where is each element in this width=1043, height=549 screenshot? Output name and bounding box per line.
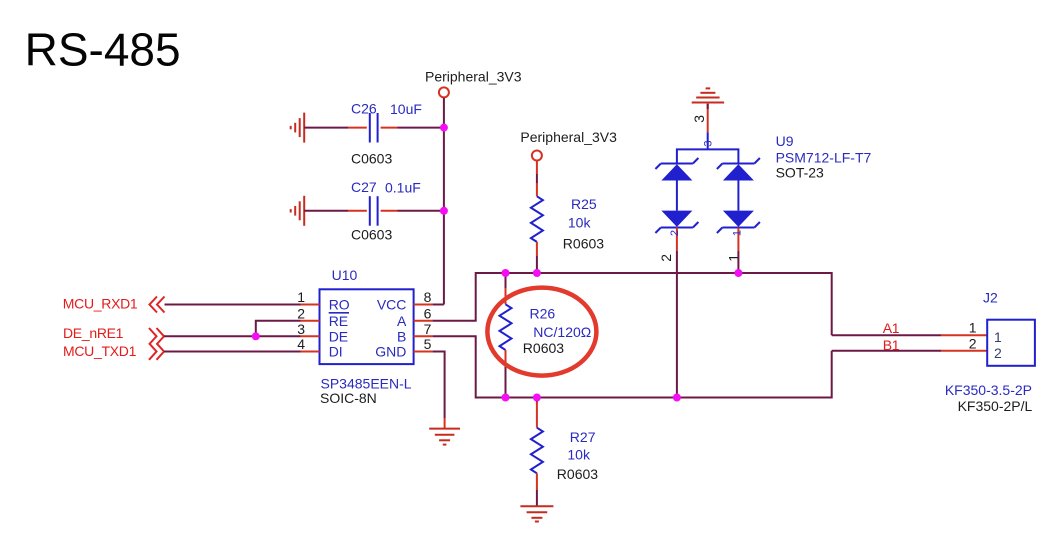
svg-text:10k: 10k bbox=[568, 214, 592, 230]
svg-text:1: 1 bbox=[732, 230, 744, 236]
svg-text:C26: C26 bbox=[351, 101, 377, 117]
pin 4 DI bbox=[297, 336, 342, 360]
svg-text:7: 7 bbox=[424, 321, 432, 337]
svg-text:KF350-2P/L: KF350-2P/L bbox=[958, 398, 1033, 414]
svg-text:DE: DE bbox=[329, 328, 348, 344]
wire U10 GND pin to ground bbox=[433, 352, 445, 419]
svg-text:3: 3 bbox=[691, 115, 707, 123]
power flag Peripheral_3V3 (R25) bbox=[520, 129, 617, 161]
svg-text:A1: A1 bbox=[883, 320, 900, 336]
capacitor C26 bbox=[348, 101, 422, 167]
pin 7 B bbox=[397, 321, 433, 345]
wire ground to U9 pin3 bbox=[707, 104, 709, 109]
svg-text:1: 1 bbox=[969, 319, 977, 335]
svg-text:6: 6 bbox=[424, 305, 432, 321]
svg-text:2: 2 bbox=[969, 336, 977, 352]
resistor R25 bbox=[531, 161, 604, 273]
junction R26 bottom bbox=[502, 394, 510, 402]
svg-text:R0603: R0603 bbox=[523, 340, 564, 356]
svg-text:C0603: C0603 bbox=[351, 227, 392, 243]
wire junction up to pin2 bbox=[256, 321, 301, 337]
svg-text:C27: C27 bbox=[351, 179, 377, 195]
junction R27 top bbox=[533, 394, 541, 402]
junction R25 bottom bbox=[533, 269, 541, 277]
svg-text:3: 3 bbox=[297, 321, 305, 337]
junction DE node bbox=[252, 332, 260, 340]
op-amp U10 SP3485 transceiver body bbox=[320, 267, 414, 406]
wire U9 pin2 to net B bbox=[676, 251, 678, 398]
svg-text:J2: J2 bbox=[983, 289, 998, 305]
svg-text:0.1uF: 0.1uF bbox=[385, 180, 421, 196]
net flag DE_nRE1 bbox=[63, 325, 164, 345]
pin 2 stub U9 bbox=[658, 228, 681, 262]
wire pin8 to rail bbox=[433, 304, 444, 306]
junction C26/rail bbox=[440, 124, 448, 132]
svg-text:SOT-23: SOT-23 bbox=[776, 164, 824, 180]
wire net A top bus bbox=[433, 273, 832, 335]
resistor R27 bbox=[531, 398, 598, 507]
net flag MCU_RXD1 bbox=[63, 296, 165, 313]
svg-text:U9: U9 bbox=[776, 133, 794, 149]
wire TXD to pin4 bbox=[164, 351, 301, 353]
svg-text:5: 5 bbox=[424, 336, 432, 352]
svg-text:NC/120Ω: NC/120Ω bbox=[533, 324, 591, 340]
svg-text:VCC: VCC bbox=[377, 297, 407, 313]
svg-text:2: 2 bbox=[297, 305, 305, 321]
left upper zener bbox=[661, 163, 693, 165]
junction U9 pin1 / net A bbox=[734, 269, 742, 277]
wire DE_nRE1 to junction to pin3 bbox=[164, 335, 301, 337]
resistor R26 (termination) bbox=[500, 273, 592, 398]
svg-text:Peripheral_3V3: Peripheral_3V3 bbox=[425, 69, 522, 85]
svg-text:MCU_TXD1: MCU_TXD1 bbox=[63, 343, 137, 359]
svg-text:DI: DI bbox=[329, 344, 343, 360]
junction U9 pin2 / net B bbox=[673, 394, 681, 402]
wire net A1 to J2 bbox=[832, 320, 988, 336]
wire VCC rail vertical bbox=[443, 98, 445, 305]
svg-text:Peripheral_3V3: Peripheral_3V3 bbox=[520, 129, 617, 145]
svg-text:DE_nRE1: DE_nRE1 bbox=[63, 325, 124, 341]
svg-text:U10: U10 bbox=[332, 267, 358, 283]
wire ground to C27 bbox=[304, 210, 348, 212]
capacitor C27 bbox=[348, 179, 421, 243]
svg-text:GND: GND bbox=[375, 344, 406, 360]
svg-text:8: 8 bbox=[424, 289, 432, 305]
wire U9 pin1 to net A bbox=[737, 251, 739, 273]
svg-text:B: B bbox=[397, 328, 406, 344]
svg-text:2: 2 bbox=[658, 254, 674, 262]
wire C27 to rail bbox=[398, 210, 444, 212]
ground (U9 pin3, top) bbox=[692, 88, 724, 109]
svg-text:R26: R26 bbox=[530, 306, 556, 322]
svg-text:1: 1 bbox=[297, 289, 305, 305]
svg-text:2: 2 bbox=[669, 230, 681, 236]
svg-text:RO: RO bbox=[329, 297, 350, 313]
svg-text:10k: 10k bbox=[567, 447, 591, 463]
svg-text:R0603: R0603 bbox=[557, 466, 598, 482]
pin 3 stub U9 bbox=[691, 109, 714, 149]
svg-text:2: 2 bbox=[994, 345, 1002, 361]
pin 5 GND bbox=[375, 336, 432, 360]
svg-text:MCU_RXD1: MCU_RXD1 bbox=[63, 296, 138, 312]
junction R26 top bbox=[502, 269, 510, 277]
wire net B1 to J2 bbox=[832, 337, 988, 353]
svg-text:10uF: 10uF bbox=[390, 101, 422, 117]
net flag MCU_TXD1 bbox=[63, 343, 164, 360]
junction C27/rail bbox=[440, 207, 448, 215]
svg-text:C0603: C0603 bbox=[351, 151, 392, 167]
pin 2 RE (overline) bbox=[297, 305, 349, 329]
right upper zener bbox=[722, 163, 754, 165]
wire net B bottom bus bbox=[433, 336, 832, 397]
wire ground to C26 bbox=[304, 127, 348, 129]
svg-text:KF350-3.5-2P: KF350-3.5-2P bbox=[945, 382, 1032, 398]
svg-text:R27: R27 bbox=[570, 429, 596, 445]
wire RXD to pin1 bbox=[165, 304, 301, 306]
svg-text:4: 4 bbox=[297, 336, 305, 352]
power flag Peripheral_3V3 (top rail) bbox=[425, 69, 522, 98]
pin 8 VCC bbox=[377, 289, 433, 313]
pin 3 DE bbox=[297, 321, 348, 345]
ground (C27) bbox=[291, 196, 305, 226]
svg-text:RE: RE bbox=[329, 313, 348, 329]
pin 1 RO bbox=[297, 289, 350, 313]
pin 1 stub U9 bbox=[726, 228, 744, 262]
svg-text:R0603: R0603 bbox=[563, 235, 604, 251]
svg-text:A: A bbox=[397, 313, 407, 329]
svg-text:3: 3 bbox=[703, 140, 715, 146]
svg-text:RS-485: RS-485 bbox=[25, 24, 181, 76]
wire C26 to rail bbox=[398, 127, 444, 129]
ground (C26) bbox=[291, 113, 305, 143]
svg-text:R25: R25 bbox=[571, 196, 597, 212]
connector J2 bbox=[945, 289, 1035, 413]
pin 6 A bbox=[397, 305, 433, 329]
svg-text:SOIC-8N: SOIC-8N bbox=[320, 390, 377, 406]
transistor U9 TVS array symbol bbox=[655, 133, 871, 233]
ground (R27) bbox=[520, 506, 553, 521]
svg-text:1: 1 bbox=[994, 329, 1002, 345]
svg-text:PSM712-LF-T7: PSM712-LF-T7 bbox=[776, 150, 872, 166]
annotation ellipse around R26 bbox=[487, 288, 596, 376]
title RS-485 bbox=[25, 24, 181, 76]
ground (U10) bbox=[429, 418, 460, 445]
svg-text:B1: B1 bbox=[883, 337, 900, 353]
svg-text:SP3485EEN-L: SP3485EEN-L bbox=[321, 375, 412, 391]
